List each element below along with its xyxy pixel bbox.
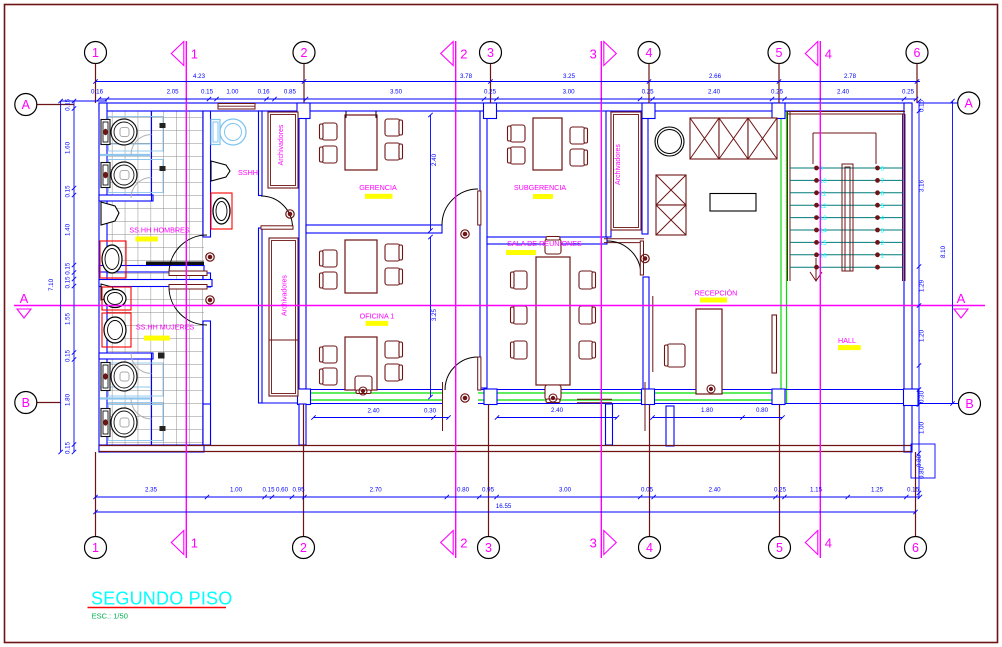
- svg-text:8.10: 8.10: [940, 245, 947, 258]
- svg-text:2: 2: [460, 536, 467, 551]
- svg-text:1.29: 1.29: [919, 279, 926, 292]
- svg-text:0.15: 0.15: [65, 98, 72, 111]
- svg-text:3: 3: [485, 541, 492, 555]
- svg-text:2.40: 2.40: [837, 89, 850, 96]
- svg-text:5: 5: [776, 541, 783, 555]
- svg-text:8: 8: [881, 166, 885, 173]
- svg-text:0.80: 0.80: [916, 454, 923, 467]
- svg-text:Archivadores: Archivadores: [282, 275, 289, 316]
- svg-text:0.16: 0.16: [91, 89, 104, 96]
- svg-text:2.40: 2.40: [431, 153, 438, 166]
- svg-text:0.25: 0.25: [902, 89, 915, 96]
- svg-text:ESC.: 1/50: ESC.: 1/50: [92, 612, 128, 621]
- svg-text:3: 3: [590, 536, 597, 551]
- svg-text:2.40: 2.40: [367, 408, 380, 415]
- svg-text:3.00: 3.00: [563, 89, 576, 96]
- svg-text:2: 2: [301, 46, 308, 60]
- svg-text:4: 4: [881, 215, 885, 222]
- svg-text:2: 2: [460, 47, 467, 62]
- svg-text:0.95: 0.95: [482, 487, 495, 494]
- svg-text:0.25: 0.25: [484, 89, 497, 96]
- svg-text:7.10: 7.10: [48, 278, 55, 291]
- svg-text:3.25: 3.25: [563, 73, 576, 80]
- svg-text:16.55: 16.55: [496, 503, 512, 510]
- svg-text:0.15: 0.15: [65, 441, 72, 454]
- svg-text:2.05: 2.05: [167, 89, 180, 96]
- svg-text:2.70: 2.70: [370, 487, 383, 494]
- svg-text:1.80: 1.80: [701, 407, 714, 414]
- svg-text:2.78: 2.78: [844, 73, 857, 80]
- svg-text:0.30: 0.30: [424, 408, 437, 415]
- svg-text:SS.HH HOMBRES: SS.HH HOMBRES: [129, 226, 190, 235]
- svg-text:3.50: 3.50: [390, 89, 403, 96]
- svg-text:RECEPCIÓN: RECEPCIÓN: [695, 289, 738, 298]
- svg-text:3.16: 3.16: [919, 179, 926, 192]
- svg-text:A: A: [957, 291, 966, 306]
- svg-text:1.20: 1.20: [919, 329, 926, 342]
- svg-text:1: 1: [881, 252, 885, 259]
- svg-text:1.60: 1.60: [65, 141, 72, 154]
- svg-text:0.30: 0.30: [919, 390, 926, 403]
- svg-text:SEGUNDO PISO: SEGUNDO PISO: [91, 589, 232, 609]
- svg-text:0.95: 0.95: [292, 487, 305, 494]
- svg-text:1.00: 1.00: [919, 421, 926, 434]
- svg-text:0.80: 0.80: [919, 466, 926, 479]
- svg-text:3.25: 3.25: [431, 308, 438, 321]
- svg-text:0.80: 0.80: [457, 487, 470, 494]
- svg-text:3: 3: [881, 228, 885, 235]
- svg-text:1: 1: [92, 541, 99, 555]
- svg-text:4: 4: [646, 46, 653, 60]
- svg-text:3.00: 3.00: [559, 487, 572, 494]
- svg-text:0.05: 0.05: [641, 487, 654, 494]
- svg-text:2.40: 2.40: [709, 487, 722, 494]
- svg-text:OFICINA 1: OFICINA 1: [360, 312, 395, 321]
- svg-text:4: 4: [825, 536, 832, 551]
- svg-text:0.25: 0.25: [774, 487, 787, 494]
- svg-text:Archivadores: Archivadores: [278, 124, 285, 165]
- svg-text:SSHH: SSHH: [238, 168, 258, 177]
- svg-text:0.80: 0.80: [756, 407, 769, 414]
- svg-text:7: 7: [881, 178, 885, 185]
- svg-text:0.15: 0.15: [907, 487, 920, 494]
- svg-text:2: 2: [881, 240, 885, 247]
- svg-text:0.15: 0.15: [65, 349, 72, 362]
- svg-text:3: 3: [487, 46, 494, 60]
- svg-text:3: 3: [590, 47, 597, 62]
- svg-text:Archivadores: Archivadores: [615, 144, 622, 185]
- svg-text:0.15: 0.15: [65, 185, 72, 198]
- svg-text:3.78: 3.78: [460, 73, 473, 80]
- svg-text:1.55: 1.55: [65, 312, 72, 325]
- svg-text:1.00: 1.00: [226, 89, 239, 96]
- svg-text:1.15: 1.15: [810, 487, 823, 494]
- svg-text:4.23: 4.23: [193, 73, 206, 80]
- svg-text:SUBGERENCIA: SUBGERENCIA: [514, 183, 567, 192]
- svg-text:1.00: 1.00: [230, 487, 243, 494]
- svg-text:GERENCIA: GERENCIA: [359, 183, 397, 192]
- svg-text:1.25: 1.25: [871, 487, 884, 494]
- svg-text:1: 1: [191, 536, 198, 551]
- svg-text:B: B: [22, 396, 30, 410]
- svg-text:A: A: [965, 97, 974, 111]
- svg-text:0.15: 0.15: [262, 487, 275, 494]
- svg-text:5: 5: [881, 203, 885, 210]
- svg-text:0.15: 0.15: [65, 262, 72, 275]
- svg-text:2.35: 2.35: [145, 487, 158, 494]
- svg-text:2: 2: [300, 541, 307, 555]
- svg-text:0.15: 0.15: [919, 99, 926, 112]
- svg-text:A: A: [20, 291, 29, 306]
- svg-text:6: 6: [881, 190, 885, 197]
- svg-text:SALA DE REUNIONES: SALA DE REUNIONES: [507, 239, 582, 248]
- svg-text:1: 1: [92, 46, 99, 60]
- svg-text:HALL: HALL: [838, 336, 856, 345]
- svg-text:2.40: 2.40: [708, 89, 721, 96]
- svg-text:2.66: 2.66: [709, 73, 722, 80]
- svg-text:0.85: 0.85: [284, 89, 297, 96]
- svg-text:SS.HH MUJERES: SS.HH MUJERES: [136, 323, 195, 332]
- svg-text:1.80: 1.80: [65, 393, 72, 406]
- svg-text:5: 5: [776, 46, 783, 60]
- svg-text:0.15: 0.15: [65, 276, 72, 289]
- svg-text:0.25: 0.25: [771, 89, 784, 96]
- svg-text:6: 6: [914, 46, 921, 60]
- svg-text:0.60: 0.60: [276, 487, 289, 494]
- svg-text:1.40: 1.40: [65, 223, 72, 236]
- svg-text:1: 1: [191, 47, 198, 62]
- svg-text:B: B: [965, 397, 973, 411]
- svg-text:0.16: 0.16: [258, 89, 271, 96]
- svg-text:2.40: 2.40: [551, 407, 564, 414]
- svg-text:6: 6: [912, 541, 919, 555]
- svg-text:4: 4: [825, 47, 832, 62]
- svg-text:0.15: 0.15: [201, 89, 214, 96]
- svg-text:4: 4: [646, 541, 653, 555]
- svg-text:0.25: 0.25: [642, 89, 655, 96]
- svg-text:A: A: [22, 98, 31, 112]
